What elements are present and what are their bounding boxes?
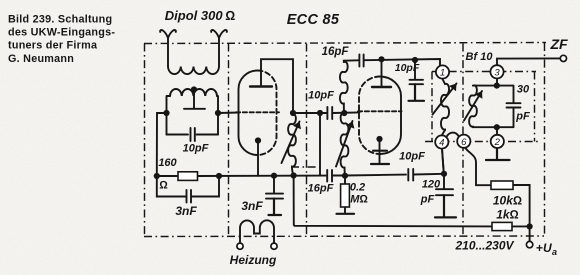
svg-text:des UKW-Eingangs-: des UKW-Eingangs- <box>8 27 115 39</box>
svg-text:a: a <box>552 247 557 257</box>
svg-text:Dipol 300 Ω: Dipol 300 Ω <box>165 8 235 23</box>
svg-text:Bf 10: Bf 10 <box>466 51 494 63</box>
svg-text:10pF: 10pF <box>399 151 425 163</box>
svg-text:16pF: 16pF <box>308 183 334 195</box>
svg-text:G. Neumann: G. Neumann <box>8 53 74 65</box>
svg-text:1: 1 <box>440 68 445 79</box>
svg-text:3: 3 <box>494 67 500 78</box>
svg-text:3nF: 3nF <box>241 199 263 213</box>
svg-text:+: + <box>536 241 543 255</box>
svg-text:4: 4 <box>439 138 444 149</box>
svg-text:6: 6 <box>461 137 467 148</box>
svg-text:1kΩ: 1kΩ <box>496 208 519 222</box>
svg-text:10pF: 10pF <box>183 143 209 155</box>
svg-text:10pF: 10pF <box>308 90 334 102</box>
svg-text:10pF: 10pF <box>395 62 420 74</box>
svg-text:Ω: Ω <box>159 180 168 192</box>
svg-text:pF: pF <box>420 194 435 206</box>
svg-text:210...230V: 210...230V <box>454 239 514 253</box>
svg-text:pF: pF <box>515 111 530 123</box>
svg-text:MΩ: MΩ <box>350 194 368 206</box>
svg-text:30: 30 <box>517 84 530 96</box>
svg-text:120: 120 <box>422 179 441 191</box>
svg-text:2: 2 <box>494 137 501 148</box>
svg-text:160: 160 <box>158 157 177 169</box>
svg-text:ZF: ZF <box>549 36 568 52</box>
svg-text:tuners der Firma: tuners der Firma <box>8 40 98 52</box>
svg-text:U: U <box>543 241 552 255</box>
svg-text:10kΩ: 10kΩ <box>493 194 522 208</box>
svg-text:Bild 239. Schaltung: Bild 239. Schaltung <box>8 13 112 25</box>
svg-text:Heizung: Heizung <box>230 253 277 267</box>
svg-text:0.2: 0.2 <box>350 182 365 194</box>
svg-text:3nF: 3nF <box>175 204 197 218</box>
svg-text:ECC 85: ECC 85 <box>287 12 340 28</box>
svg-text:16pF: 16pF <box>322 46 350 58</box>
